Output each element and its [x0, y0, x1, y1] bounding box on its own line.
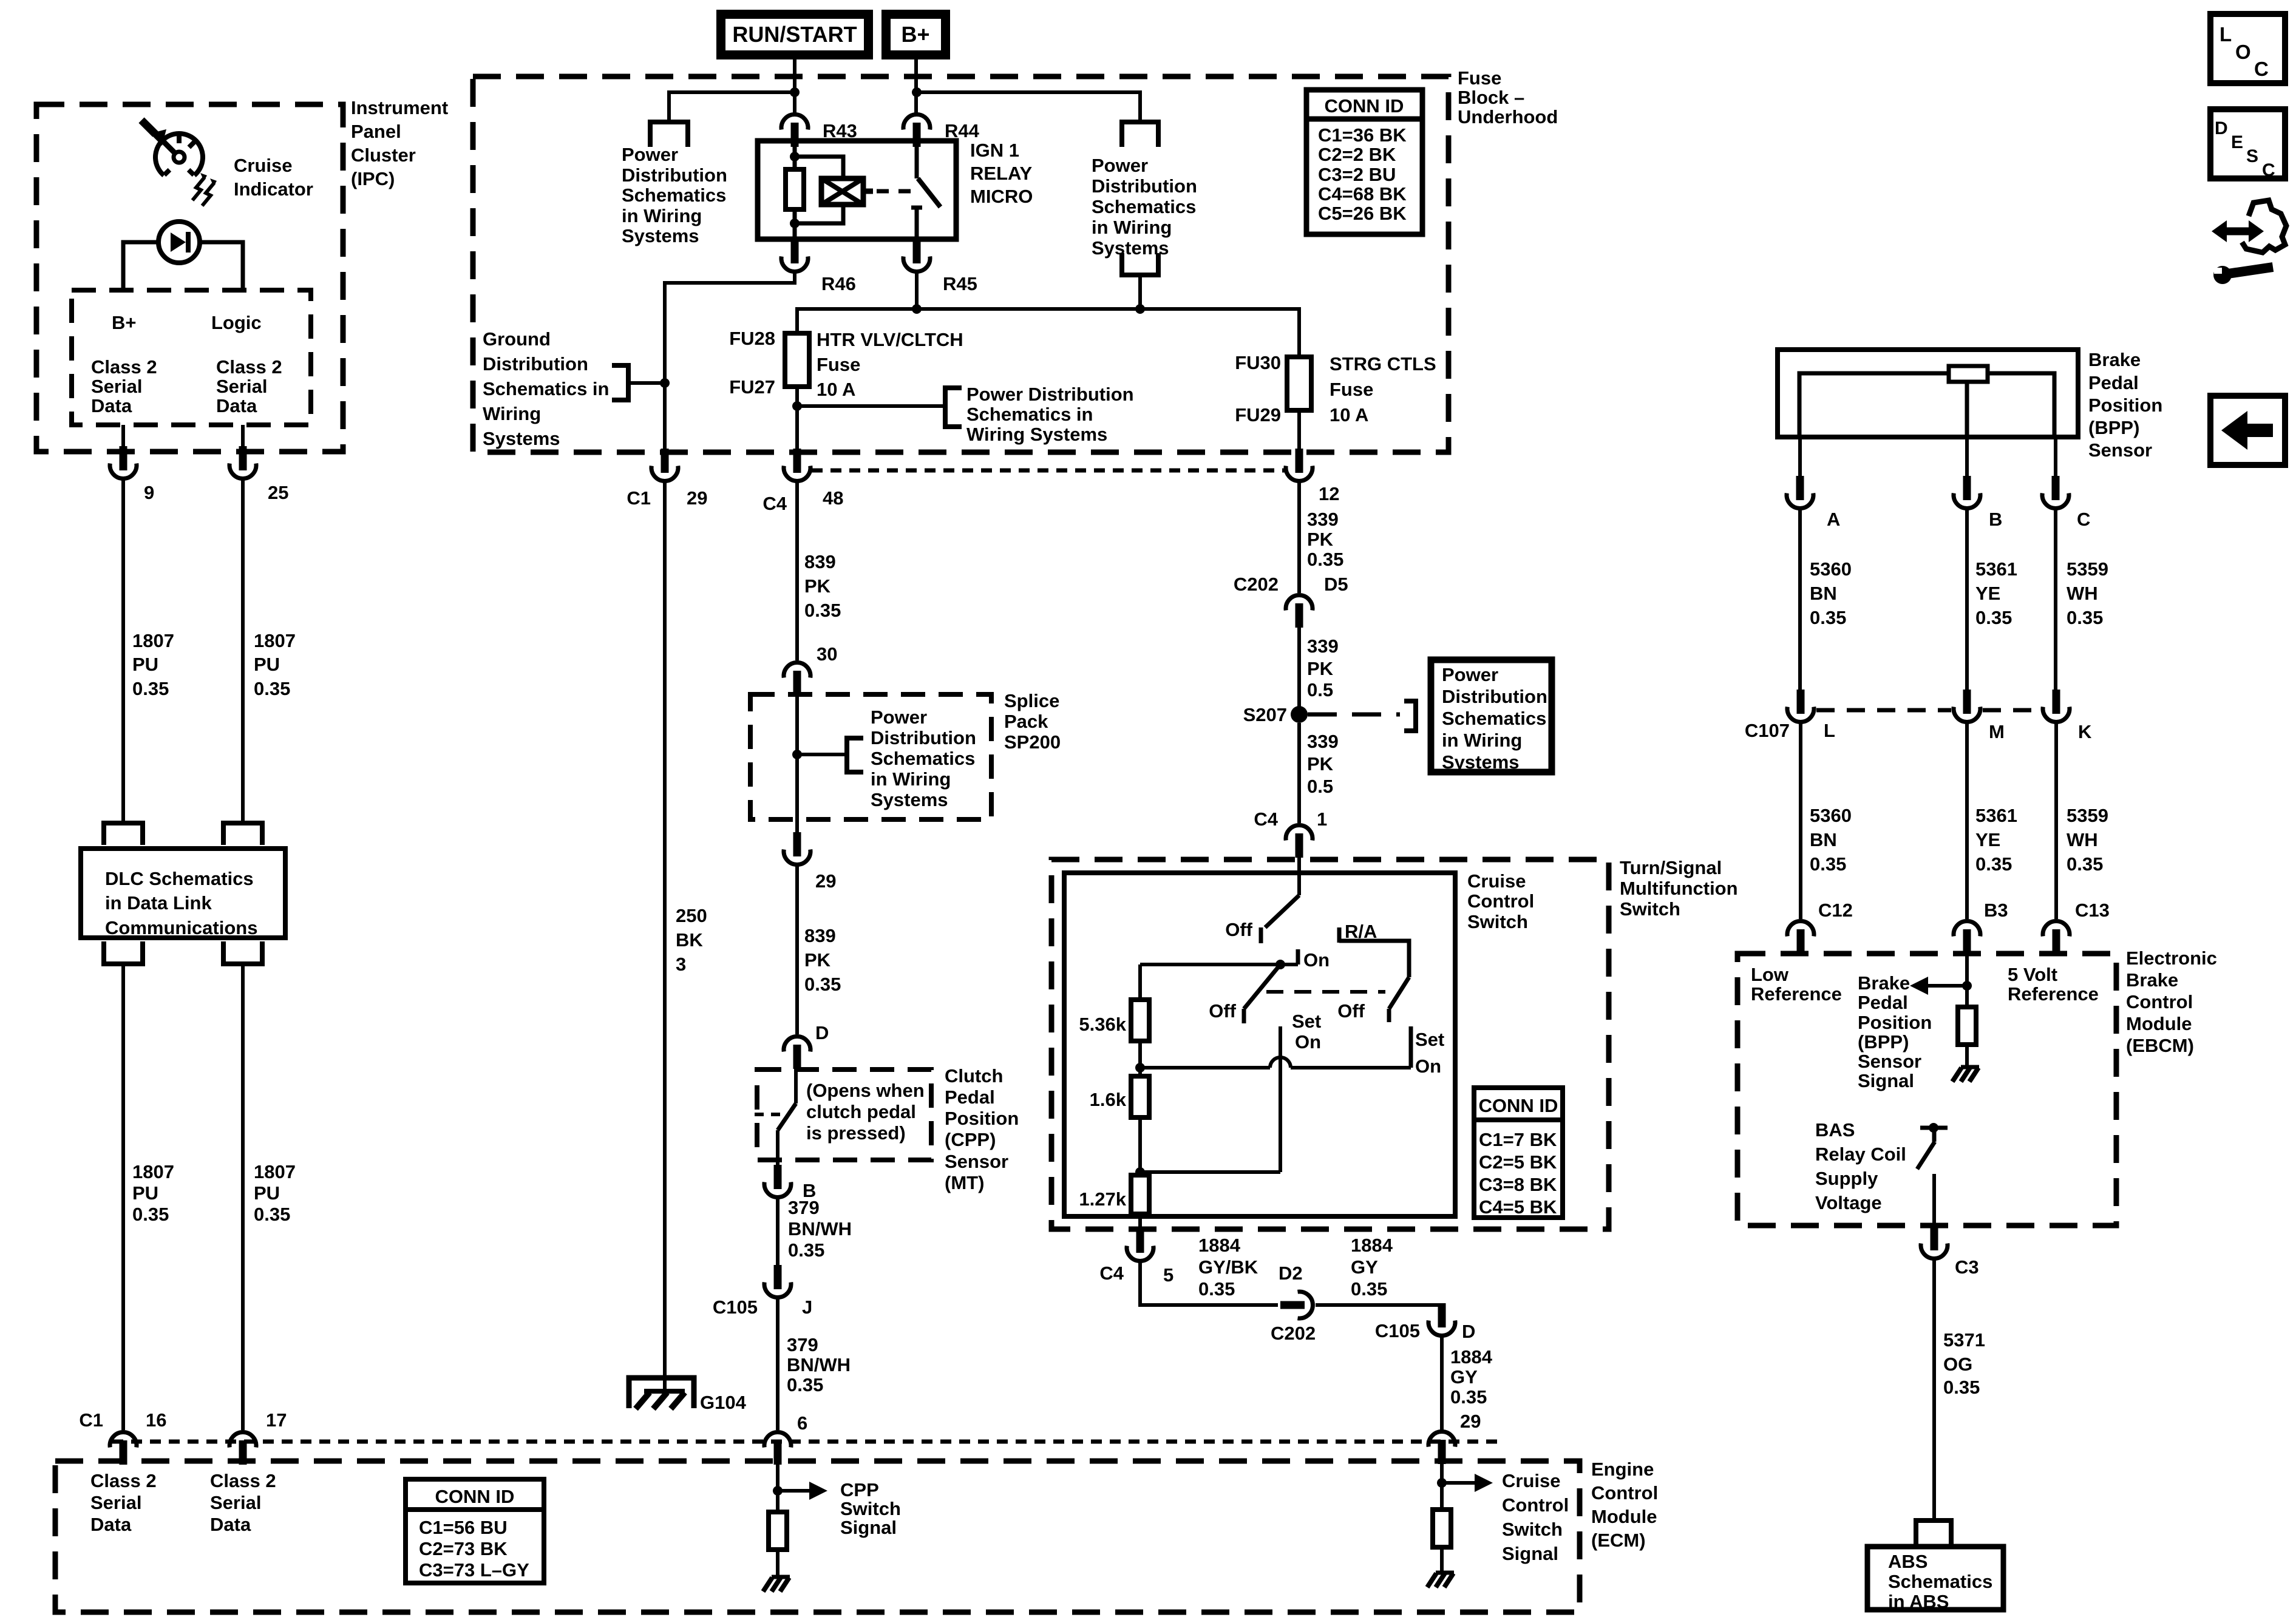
- svg-text:Pedal: Pedal: [945, 1086, 995, 1108]
- lower blade to off: [1244, 964, 1280, 1009]
- svg-text:Control: Control: [1502, 1494, 1569, 1516]
- svg-text:1.6k: 1.6k: [1090, 1089, 1127, 1110]
- relay switch upper contact: [915, 141, 919, 178]
- svg-text:E: E: [2231, 132, 2243, 152]
- wire 379 BN/WH lower: [776, 1299, 779, 1430]
- wire 25: [241, 425, 245, 452]
- wire through splice pack: [795, 691, 799, 834]
- svg-text:1.27k: 1.27k: [1079, 1188, 1126, 1210]
- svg-text:On: On: [1295, 1031, 1321, 1053]
- svg-text:Switch: Switch: [1502, 1519, 1563, 1540]
- wire 1807 PU left: [121, 480, 125, 821]
- svg-text:5371: 5371: [1943, 1329, 1985, 1351]
- svg-text:G104: G104: [700, 1392, 747, 1413]
- svg-text:Power: Power: [1092, 155, 1148, 176]
- svg-text:Brake: Brake: [2088, 349, 2141, 370]
- Fuse Block - Underhood dashed box: [473, 76, 1449, 452]
- svg-text:Clutch: Clutch: [945, 1065, 1003, 1086]
- svg-text:BAS: BAS: [1815, 1119, 1855, 1141]
- svg-text:D: D: [2215, 118, 2228, 138]
- svg-text:RUN/START: RUN/START: [732, 22, 857, 47]
- resistor 5.36k: [1131, 1000, 1149, 1041]
- svg-text:in Wiring: in Wiring: [871, 768, 951, 790]
- connector 17: [229, 1432, 256, 1465]
- wire 339 PK 0.5 lower: [1297, 723, 1301, 823]
- svg-text:379: 379: [788, 1197, 820, 1218]
- svg-text:C4: C4: [1099, 1263, 1124, 1284]
- dashed actuator link: [877, 189, 914, 194]
- svg-text:Pedal: Pedal: [2088, 372, 2139, 393]
- svg-text:30: 30: [817, 643, 837, 665]
- svg-text:R45: R45: [943, 273, 977, 294]
- svg-text:0.35: 0.35: [1943, 1377, 1980, 1398]
- svg-text:(BPP): (BPP): [2088, 417, 2139, 438]
- svg-text:On: On: [1415, 1056, 1441, 1077]
- svg-text:Switch: Switch: [1467, 911, 1528, 932]
- svg-text:Position: Position: [2088, 395, 2162, 416]
- bracket SP200 power distribution: [797, 753, 847, 756]
- svg-text:OG: OG: [1943, 1354, 1972, 1375]
- resistor 1.6k: [1131, 1076, 1149, 1117]
- svg-text:B+: B+: [112, 312, 137, 333]
- svg-text:GY/BK: GY/BK: [1198, 1256, 1258, 1278]
- svg-text:Fuse: Fuse: [1330, 379, 1373, 400]
- svg-text:O: O: [2235, 41, 2251, 63]
- DESC nav box: [2210, 109, 2285, 178]
- BAS relay switch: [1920, 1126, 1948, 1130]
- svg-text:Schematics: Schematics: [1442, 708, 1546, 729]
- BPP potentiometer: [1799, 373, 2054, 437]
- wire 5359 WH upper: [2054, 509, 2057, 692]
- svg-text:Data: Data: [90, 1514, 132, 1535]
- CONN ID box cruise switch: [1474, 1088, 1563, 1218]
- connector D CPP: [784, 1037, 810, 1069]
- node junction R43: [790, 87, 800, 97]
- svg-text:12: 12: [1319, 483, 1339, 504]
- svg-text:Distribution: Distribution: [622, 164, 727, 186]
- wire D2 to C105: [1316, 1305, 1442, 1308]
- connector R44: [903, 115, 930, 147]
- Instrument Panel Cluster dashed box: [36, 104, 343, 452]
- resistor cruise pull: [1433, 1510, 1451, 1547]
- svg-text:is pressed): is pressed): [806, 1122, 906, 1144]
- wire 5359 WH lower: [2054, 724, 2058, 919]
- svg-text:C1=7 BK: C1=7 BK: [1479, 1129, 1557, 1150]
- DLC pin bracket bottom-right: [223, 941, 262, 964]
- svg-text:(MT): (MT): [945, 1172, 984, 1193]
- svg-text:(BPP): (BPP): [1858, 1031, 1909, 1053]
- CONN ID box fuse block: [1306, 90, 1422, 234]
- connector C202/D5: [1286, 595, 1313, 628]
- svg-text:10 A: 10 A: [817, 379, 855, 400]
- off contact upper: [1259, 927, 1263, 943]
- bracket ABS: [1916, 1520, 1951, 1545]
- svg-text:(ECM): (ECM): [1591, 1530, 1646, 1551]
- svg-text:Electronic: Electronic: [2126, 947, 2217, 969]
- svg-text:Brake: Brake: [1858, 972, 1910, 994]
- ground BPP internal: [1952, 1067, 1979, 1082]
- svg-text:B3: B3: [1984, 900, 2008, 921]
- fuse FU28 HTR VLV/CLTCH: [785, 333, 809, 387]
- wire FU28 down: [795, 387, 799, 454]
- Electronic Brake Control Module dashed box: [1737, 954, 2116, 1225]
- svg-text:Off: Off: [1337, 1000, 1365, 1022]
- svg-text:5361: 5361: [1975, 558, 2017, 580]
- svg-text:BN: BN: [1810, 583, 1837, 604]
- svg-text:Supply: Supply: [1815, 1168, 1878, 1189]
- bracket power distribution FU27: [945, 388, 962, 427]
- ground CPP internal: [763, 1577, 790, 1592]
- svg-text:839: 839: [804, 925, 836, 946]
- connector R46: [781, 239, 808, 271]
- wire 250 BK to G104: [663, 483, 667, 1375]
- svg-text:Signal: Signal: [1502, 1543, 1558, 1564]
- main on wire: [1140, 963, 1298, 966]
- wire hop over: [1270, 1057, 1291, 1068]
- svg-text:L: L: [1824, 720, 1835, 741]
- svg-text:Systems: Systems: [483, 428, 560, 449]
- svg-text:Control: Control: [1591, 1482, 1658, 1503]
- svg-text:5.36k: 5.36k: [1079, 1014, 1126, 1035]
- dashed link S207 to box: [1308, 713, 1400, 717]
- svg-text:10 A: 10 A: [1330, 404, 1368, 425]
- svg-text:0.35: 0.35: [804, 974, 841, 995]
- svg-text:D: D: [815, 1022, 829, 1043]
- svg-text:C1: C1: [79, 1409, 103, 1431]
- svg-text:CONN ID: CONN ID: [1325, 95, 1404, 117]
- svg-text:Pedal: Pedal: [1858, 992, 1908, 1013]
- svg-text:Pack: Pack: [1004, 711, 1048, 732]
- svg-text:Position: Position: [1858, 1012, 1932, 1033]
- svg-text:Schematics: Schematics: [871, 748, 975, 769]
- svg-text:in Wiring: in Wiring: [1092, 217, 1172, 238]
- connector C3: [1921, 1226, 1948, 1258]
- svg-text:Sensor: Sensor: [1858, 1051, 1921, 1072]
- svg-text:Sensor: Sensor: [2088, 439, 2152, 461]
- svg-text:C4=68 BK: C4=68 BK: [1318, 183, 1407, 205]
- svg-text:D2: D2: [1279, 1263, 1303, 1284]
- svg-text:Relay Coil: Relay Coil: [1815, 1144, 1906, 1165]
- svg-text:0.5: 0.5: [1307, 776, 1333, 797]
- svg-text:C4: C4: [763, 493, 787, 514]
- wire to D2: [1140, 1261, 1278, 1305]
- node CPP signal: [773, 1486, 783, 1496]
- svg-text:(IPC): (IPC): [351, 168, 395, 189]
- svg-text:C1=36 BK: C1=36 BK: [1318, 124, 1407, 146]
- svg-text:Reference: Reference: [1751, 983, 1842, 1005]
- wire RUN/START to R43: [793, 59, 796, 113]
- svg-text:BN/WH: BN/WH: [788, 1218, 852, 1239]
- ECM connector face dotted line: [112, 1440, 1500, 1444]
- wire ladder out: [1138, 1214, 1142, 1230]
- LED indicator symbol: [158, 222, 200, 263]
- resistor BPP pull: [1958, 1007, 1976, 1045]
- svg-text:0.35: 0.35: [1975, 607, 2012, 628]
- svg-text:YE: YE: [1975, 829, 2000, 850]
- svg-text:Module: Module: [2126, 1013, 2192, 1034]
- svg-text:0.35: 0.35: [254, 678, 290, 699]
- svg-text:Set: Set: [1415, 1029, 1444, 1050]
- svg-text:Schematics: Schematics: [622, 185, 726, 206]
- svg-text:Off: Off: [1225, 919, 1252, 940]
- svg-text:1884: 1884: [1198, 1235, 1241, 1256]
- svg-text:0.35: 0.35: [1198, 1278, 1235, 1300]
- svg-text:C4: C4: [1254, 808, 1278, 830]
- svg-text:FU29: FU29: [1235, 404, 1281, 425]
- wire R45 to bus: [915, 273, 919, 311]
- ground G104: [629, 1378, 694, 1408]
- svg-text:250: 250: [676, 905, 707, 926]
- svg-text:S: S: [2246, 146, 2258, 166]
- svg-text:PK: PK: [1307, 529, 1334, 550]
- svg-text:Underhood: Underhood: [1458, 106, 1558, 127]
- svg-text:C: C: [2077, 509, 2090, 530]
- svg-text:RELAY: RELAY: [970, 163, 1033, 184]
- svg-text:C105: C105: [713, 1297, 758, 1318]
- svg-text:25: 25: [268, 482, 288, 503]
- svg-text:Wiring Systems: Wiring Systems: [966, 424, 1107, 445]
- svg-text:PK: PK: [1307, 658, 1334, 679]
- relay coil branch wire: [793, 141, 797, 171]
- wire coil to solenoid box: [795, 157, 843, 180]
- wire 339 PK 0.5 upper: [1297, 628, 1301, 714]
- wire 1807 PU right: [241, 480, 245, 821]
- svg-text:Module: Module: [1591, 1506, 1657, 1527]
- svg-text:17: 17: [266, 1409, 287, 1431]
- svg-text:Power: Power: [622, 144, 678, 165]
- svg-text:Power: Power: [871, 707, 927, 728]
- wire 1884 GY to ECM: [1440, 1337, 1444, 1430]
- node ladder 2: [1135, 1167, 1145, 1177]
- svg-text:C3=8 BK: C3=8 BK: [1479, 1174, 1557, 1195]
- node ladder 1: [1135, 1063, 1145, 1073]
- svg-text:Multifunction: Multifunction: [1620, 878, 1738, 899]
- wire FU27 branch to bracket: [797, 404, 945, 408]
- svg-text:On: On: [1303, 949, 1330, 971]
- svg-text:C5=26 BK: C5=26 BK: [1318, 203, 1407, 224]
- Cruise Control Switch solid box: [1064, 873, 1455, 1216]
- svg-text:Splice: Splice: [1004, 690, 1059, 711]
- IPC connector inner dashed box: [72, 290, 311, 425]
- wire 5371 OG: [1932, 1260, 1936, 1520]
- svg-text:in ABS: in ABS: [1888, 1591, 1949, 1612]
- svg-text:1807: 1807: [132, 630, 174, 651]
- connector B CPP: [764, 1165, 791, 1197]
- wire right branch to power distrib bracket: [917, 92, 1140, 120]
- svg-text:MICRO: MICRO: [970, 186, 1033, 207]
- svg-text:339: 339: [1307, 509, 1339, 530]
- svg-text:C1: C1: [627, 487, 651, 509]
- connector C105/D: [1428, 1303, 1455, 1335]
- svg-text:0.5: 0.5: [1307, 679, 1333, 700]
- wire bracket stem to bus: [1138, 275, 1142, 309]
- svg-text:Reference: Reference: [2008, 983, 2099, 1005]
- svg-text:FU27: FU27: [729, 376, 775, 398]
- svg-text:Voltage: Voltage: [1815, 1192, 1882, 1213]
- svg-text:GY: GY: [1450, 1366, 1478, 1388]
- svg-text:1807: 1807: [254, 1161, 296, 1182]
- wire 379 BN/WH upper: [776, 1199, 779, 1268]
- svg-text:WH: WH: [2067, 829, 2098, 850]
- resistor relay coil: [786, 169, 804, 209]
- Brake Pedal Position sensor box: [1778, 350, 2078, 437]
- svg-text:Cruise: Cruise: [234, 155, 292, 176]
- DLC pin bracket top-right: [223, 823, 262, 845]
- connector D2/C202 inline: [1280, 1292, 1313, 1318]
- svg-text:0.35: 0.35: [1975, 853, 2012, 875]
- svg-text:C: C: [2254, 58, 2269, 80]
- node junction R44: [912, 87, 922, 97]
- svg-text:29: 29: [1460, 1411, 1481, 1432]
- svg-text:0.35: 0.35: [1810, 607, 1846, 628]
- svg-text:Ground: Ground: [483, 328, 551, 350]
- CPP sensor dashed box: [757, 1070, 931, 1160]
- svg-text:FU28: FU28: [729, 328, 775, 349]
- svg-text:Cruise: Cruise: [1467, 870, 1526, 892]
- svg-text:Communications: Communications: [105, 917, 257, 938]
- svg-text:Class 2: Class 2: [90, 1470, 157, 1491]
- svg-text:Brake: Brake: [2126, 969, 2178, 991]
- connector C: [2054, 437, 2057, 478]
- Splice Pack SP200 dashed box: [750, 694, 991, 819]
- svg-text:5: 5: [1163, 1264, 1173, 1286]
- back arrow nav box: [2210, 396, 2285, 465]
- svg-text:Distribution: Distribution: [871, 727, 976, 748]
- svg-text:Distribution: Distribution: [1442, 686, 1547, 707]
- connector-view icon (double arrow + connector outline + wrench): [2219, 228, 2254, 236]
- LED light rays: [192, 177, 214, 206]
- svg-text:D: D: [1462, 1321, 1475, 1342]
- B3 internal wire: [1965, 950, 1969, 1007]
- svg-text:Switch: Switch: [840, 1498, 901, 1519]
- svg-text:BN/WH: BN/WH: [787, 1354, 851, 1375]
- wire 12 to C202: [1297, 483, 1301, 593]
- svg-text:C4=5 BK: C4=5 BK: [1479, 1196, 1557, 1218]
- bracket S207 power distribution: [1404, 701, 1416, 731]
- wire 5360 BN upper: [1798, 509, 1802, 692]
- svg-text:CONN ID: CONN ID: [1479, 1095, 1558, 1116]
- svg-text:R46: R46: [821, 273, 856, 294]
- connector B3: [1954, 921, 1980, 954]
- CONN ID box ECM: [406, 1479, 544, 1583]
- connector 9: [110, 446, 137, 478]
- svg-text:DLC Schematics: DLC Schematics: [105, 868, 254, 889]
- wire R46 to ground distribution column: [665, 273, 795, 454]
- resistor 1.27k: [1131, 1175, 1149, 1214]
- svg-text:Fuse: Fuse: [817, 354, 860, 375]
- svg-text:Wiring: Wiring: [483, 403, 541, 424]
- svg-text:1807: 1807: [132, 1161, 174, 1182]
- svg-text:Control: Control: [2126, 991, 2193, 1012]
- svg-text:HTR VLV/CLTCH: HTR VLV/CLTCH: [817, 329, 963, 350]
- bracket power distribution right upper: [1122, 122, 1158, 147]
- svg-text:Cluster: Cluster: [351, 144, 416, 166]
- arrow BPP signal (points left): [1928, 984, 1967, 988]
- svg-text:9: 9: [144, 482, 154, 503]
- wire to ECM 17: [241, 964, 245, 1430]
- wire left branch to power distrib bracket: [669, 92, 795, 120]
- CPP switch: [794, 1069, 798, 1103]
- connector C13: [2043, 921, 2070, 954]
- svg-text:Class 2: Class 2: [210, 1470, 276, 1491]
- arrow CPP signal: [778, 1489, 809, 1493]
- svg-text:0.35: 0.35: [1307, 549, 1343, 570]
- svg-text:CPP: CPP: [840, 1479, 879, 1500]
- svg-text:Signal: Signal: [1858, 1070, 1914, 1091]
- svg-text:Control: Control: [1467, 890, 1534, 912]
- svg-text:A: A: [1827, 509, 1840, 530]
- svg-text:K: K: [2078, 721, 2092, 742]
- svg-text:PU: PU: [254, 654, 280, 675]
- svg-text:Systems: Systems: [622, 225, 699, 246]
- svg-text:BN: BN: [1810, 829, 1837, 850]
- svg-text:16: 16: [146, 1409, 166, 1431]
- svg-text:0.35: 0.35: [2067, 853, 2103, 875]
- ABS Schematics box: [1867, 1547, 2003, 1610]
- B+ power box: [881, 10, 950, 59]
- node BPP signal: [1962, 981, 1972, 991]
- svg-text:C2=2 BK: C2=2 BK: [1318, 144, 1396, 165]
- wire 839 PK upper: [795, 483, 799, 660]
- svg-text:Class 2: Class 2: [216, 356, 282, 378]
- svg-text:J: J: [802, 1297, 812, 1318]
- svg-text:B: B: [1989, 509, 2002, 530]
- svg-text:in Wiring: in Wiring: [1442, 730, 1522, 751]
- svg-text:Fuse: Fuse: [1458, 67, 1501, 89]
- bracket power distribution right lower (points up to text): [1122, 253, 1158, 275]
- svg-text:29: 29: [687, 487, 707, 509]
- svg-text:1: 1: [1317, 808, 1327, 830]
- splice S207: [1291, 706, 1308, 723]
- svg-text:379: 379: [787, 1334, 818, 1355]
- svg-text:1884: 1884: [1450, 1346, 1493, 1368]
- svg-text:Schematics: Schematics: [1092, 196, 1196, 217]
- svg-text:Off: Off: [1209, 1000, 1236, 1022]
- C107 dashed connector line: [1816, 708, 1951, 713]
- svg-text:1807: 1807: [254, 630, 296, 651]
- connector C105/J: [764, 1265, 791, 1297]
- DLC pin bracket top-left: [104, 823, 143, 845]
- svg-text:339: 339: [1307, 636, 1339, 657]
- svg-text:C105: C105: [1375, 1320, 1420, 1341]
- svg-text:0.35: 0.35: [787, 1374, 823, 1395]
- wire 9: [121, 425, 125, 452]
- svg-text:S207: S207: [1243, 704, 1287, 725]
- connector 16: [110, 1432, 137, 1465]
- svg-text:in Data Link: in Data Link: [105, 892, 212, 914]
- svg-text:839: 839: [804, 551, 836, 572]
- svg-text:5359: 5359: [2067, 558, 2108, 580]
- svg-text:Distribution: Distribution: [1092, 175, 1197, 197]
- CPP switch signal branch: [776, 1461, 779, 1512]
- wire 839 PK lower: [795, 866, 799, 1034]
- fuse block connector face dotted line: [812, 469, 1285, 473]
- svg-text:Class 2: Class 2: [91, 356, 157, 378]
- connector 6 ECM: [764, 1432, 791, 1465]
- svg-text:PK: PK: [804, 575, 831, 597]
- svg-text:0.35: 0.35: [788, 1239, 824, 1261]
- svg-text:Serial: Serial: [91, 376, 142, 397]
- svg-text:Low: Low: [1751, 964, 1789, 985]
- node ground distrib: [660, 378, 670, 388]
- connector C4/5 cruise: [1127, 1229, 1153, 1261]
- svg-text:Power Distribution: Power Distribution: [966, 384, 1134, 405]
- connector B: [1965, 437, 1969, 478]
- svg-text:C: C: [2262, 160, 2275, 180]
- svg-text:5361: 5361: [1975, 805, 2017, 826]
- svg-text:0.35: 0.35: [254, 1204, 290, 1225]
- wire 5360 BN lower: [1799, 724, 1802, 919]
